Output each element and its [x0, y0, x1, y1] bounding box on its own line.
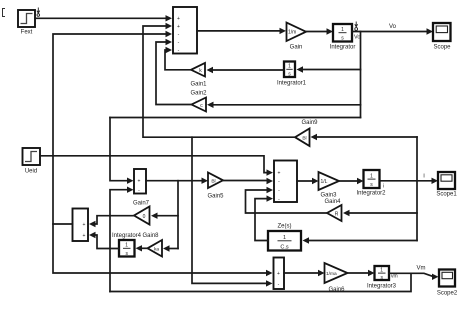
svg-text:Integrator3: Integrator3 [367, 284, 397, 290]
svg-text:Gain7: Gain7 [133, 201, 150, 207]
wire Gain9 to Sum1 input2 [143, 23, 295, 137]
svg-text:1: 1 [288, 64, 291, 70]
transfer function block Ze(s) 1/C.s [268, 224, 301, 251]
svg-text:R: R [335, 212, 339, 218]
svg-text:Gain2: Gain2 [190, 91, 207, 97]
svg-text:Gain1: Gain1 [190, 82, 207, 88]
wire Gain4 to Sum4 input3 [246, 187, 328, 213]
svg-text:1: 1 [283, 235, 286, 241]
wire Integrator to Scope with Vo label [352, 24, 433, 35]
svg-text:Ueid: Ueid [25, 169, 37, 175]
port annotation at Integrator output [354, 22, 360, 41]
svg-text:Bl: Bl [302, 136, 306, 142]
svg-text:ka: ka [154, 247, 159, 253]
svg-text:0: 0 [143, 214, 146, 220]
sum junction Sum5 (2 inputs) [274, 258, 285, 290]
wire Sum2 output branch down x=178 [177, 181, 179, 249]
gain block Gain2 (c) [190, 91, 207, 112]
svg-text:Fext: Fext [21, 30, 33, 36]
svg-text:+: + [277, 271, 280, 277]
scope block Scope2 [437, 270, 458, 297]
svg-text:vm: vm [391, 274, 398, 280]
integrator block Integrator3 (1/s) [367, 266, 398, 290]
gain block Gain5 (Bl) [207, 173, 224, 200]
wire Fext to Sum1 input1 [35, 15, 172, 21]
wire Vo horizontal run y=117 [110, 117, 361, 119]
wire Gain8 to Integrator4 [136, 245, 148, 251]
wire Gain6 to Integrator3 [348, 270, 375, 276]
wire Gain3 to Integrator2 [339, 178, 364, 184]
wire Gain9 line branch x=192 to Sum5 input2 [192, 137, 273, 286]
svg-text:Vm: Vm [417, 266, 426, 272]
gain block Gain4 (R) [327, 205, 342, 221]
svg-text:Scope1: Scope1 [436, 192, 457, 198]
gain block Gain (1/m) [287, 23, 307, 51]
wire Gain to Integrator [306, 28, 333, 34]
sum junction Sum4 (4 inputs) [274, 161, 297, 203]
gain block Gain1 (k) [190, 63, 207, 88]
svg-text:1: 1 [341, 27, 344, 33]
scope block Scope1 [436, 172, 457, 198]
wire i to Ze(s) [303, 237, 418, 243]
wire i junction vertical x=417 [416, 137, 418, 241]
gain block Gain8 (ka) [142, 233, 162, 257]
svg-text:Vo: Vo [389, 24, 397, 30]
integrator block Integrator (1/s) [330, 24, 356, 51]
wire Vm feedback up x=110 to Sum2 input2 [110, 187, 134, 292]
svg-text:+: + [278, 171, 281, 177]
svg-text:Gain: Gain [290, 45, 303, 51]
gain block Gain9 (Bl) [295, 120, 318, 146]
integrator block Integrator1 (1/s, mirrored) [277, 62, 307, 87]
wire Integrator2 to Scope1 with i label [380, 174, 439, 185]
svg-text:+: + [177, 24, 180, 30]
wire Integrator3 to Scope2 with Vm label [389, 266, 439, 281]
wire Sum2 to Gain5 [146, 178, 208, 184]
wire Sum1 to Gain [197, 28, 286, 34]
wire i to Gain4 [343, 210, 417, 216]
svg-text:+: + [83, 222, 86, 228]
svg-text:1/m: 1/m [288, 30, 296, 36]
wire Sum5 to Gain6 [284, 270, 325, 276]
svg-text:Ze(s): Ze(s) [278, 224, 292, 230]
svg-text:C.s: C.s [280, 245, 289, 251]
wire branch to Gain8 [163, 245, 178, 251]
svg-text:Gain4: Gain4 [324, 199, 341, 205]
svg-text:+: + [83, 233, 86, 239]
integrator block Integrator2 (1/s) [356, 170, 386, 197]
wire Sum4 to Gain3 [297, 178, 319, 184]
page artifact bracket [3, 9, 6, 17]
svg-text:Bl: Bl [211, 179, 215, 185]
wire Vm feedback bottom run [110, 274, 411, 292]
svg-text:Gain3: Gain3 [320, 193, 337, 199]
svg-text:i: i [383, 184, 384, 190]
step source Ueid [23, 148, 41, 175]
svg-text:Integrator1: Integrator1 [277, 81, 307, 87]
svg-text:1/L: 1/L [321, 179, 328, 185]
svg-text:Gain9: Gain9 [301, 120, 318, 126]
svg-text:Integrator2: Integrator2 [356, 191, 386, 197]
svg-text:Scope2: Scope2 [437, 291, 458, 297]
sum junction Sum1 (5 inputs) [173, 7, 197, 54]
wire Integrator1 to Gain1 [207, 67, 285, 73]
scope block Scope [433, 23, 451, 51]
step source Fext [18, 10, 35, 36]
svg-text:Integrator4: Integrator4 [112, 233, 142, 239]
svg-text:Gain8: Gain8 [142, 233, 159, 239]
svg-text:Vo: Vo [354, 35, 360, 41]
wire Gain2 to Sum1 input4 [156, 39, 192, 105]
svg-text:+: + [138, 179, 141, 185]
wire Integrator4 to Sum3 input2 [89, 232, 119, 249]
sum junction Sum2 (2 inputs) [134, 169, 146, 194]
svg-text:Gain5: Gain5 [207, 194, 224, 200]
wire branch to Gain7 [151, 213, 178, 219]
port annotation at Fext output [37, 8, 40, 17]
svg-text:+: + [177, 16, 180, 22]
svg-text:Integrator: Integrator [330, 45, 356, 51]
gain block Gain3 (1/L) [319, 172, 342, 205]
wire Ze(s) to Sum4 input4 [255, 195, 273, 240]
wire Gain5 to Sum4 input2 [223, 178, 273, 184]
wire i to Gain9 input [311, 134, 418, 140]
svg-text:1/ma: 1/ma [326, 271, 337, 277]
wire Sum3 output to Sum1 input3 [53, 31, 172, 224]
svg-text:1: 1 [370, 173, 373, 179]
sum junction Sum3 (mirrored, 2 inputs) [73, 209, 89, 242]
integrator block Integrator4 (1/s, mirrored) [112, 233, 142, 257]
svg-text:Gain6: Gain6 [328, 287, 345, 293]
wire Gain1 to Sum1 input5 [165, 47, 191, 70]
svg-text:Scope: Scope [433, 45, 451, 51]
wire Sum3 output branch to Sum5 input1 [53, 224, 273, 276]
wire Vo to Integrator1 [297, 66, 361, 72]
svg-text:1: 1 [125, 243, 128, 249]
wire Gain7 to Sum3 input1 [89, 216, 134, 228]
wire Vo to Gain2 [207, 102, 361, 108]
wire Ueid to Sum4 input1 [40, 156, 273, 176]
wire Vo junction drop [360, 32, 362, 118]
gain block Gain6 (1/ma) [325, 263, 348, 293]
svg-text:i: i [423, 174, 424, 180]
gain block Gain7 (0) [133, 201, 150, 225]
wire Vo down x=110 to Sum2 input1 [110, 118, 134, 184]
